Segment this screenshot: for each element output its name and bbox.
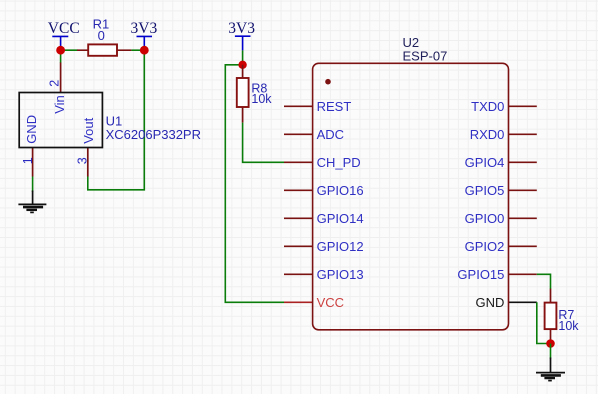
svg-text:XC6206P332PR: XC6206P332PR (106, 127, 201, 142)
pin 1 marker (325, 79, 331, 85)
ground symbol left (18, 191, 46, 213)
resistor R8 (237, 65, 273, 123)
svg-text:GPIO15: GPIO15 (457, 267, 504, 282)
svg-text:GPIO2: GPIO2 (465, 239, 505, 254)
net flag 3V3 right (228, 20, 255, 50)
pin GPIO13 (284, 273, 313, 275)
pin RXD0 (509, 133, 537, 135)
svg-text:Vin: Vin (52, 95, 67, 114)
svg-text:ADC: ADC (317, 127, 344, 142)
pin 2 Vin (60, 63, 62, 93)
junction dot 3V3 right (238, 61, 246, 69)
wire GND pin to junction (537, 302, 551, 343)
junction dot 3V3 (140, 46, 149, 55)
svg-text:GPIO13: GPIO13 (317, 267, 364, 282)
svg-text:GPIO0: GPIO0 (465, 211, 505, 226)
pin 3 Vout (87, 148, 89, 177)
svg-text:2: 2 (48, 80, 62, 87)
svg-text:ESP-07: ESP-07 (403, 48, 448, 63)
wire R1 to 3V3 (131, 49, 144, 51)
pin TXD0 (509, 105, 537, 107)
resistor R1 (77, 16, 131, 55)
svg-text:REST: REST (317, 99, 352, 114)
IC U2 ESP-07 (284, 35, 537, 330)
svg-text:GPIO5: GPIO5 (465, 183, 505, 198)
wire 3V3 down to Vout (88, 50, 145, 190)
body U1 (19, 93, 102, 148)
svg-text:GPIO4: GPIO4 (465, 155, 505, 170)
net flag 3V3 (131, 20, 158, 50)
pin 1 GND (32, 148, 34, 177)
wire GPIO15 to R7 (537, 274, 551, 289)
wire R8 to CH_PD (243, 123, 284, 163)
pin GPIO0 (509, 217, 537, 219)
net flag VCC (48, 20, 80, 50)
svg-text:VCC: VCC (317, 295, 344, 310)
wire junction to ground (550, 344, 552, 359)
resistor R7 (545, 289, 580, 344)
pin GPIO5 (509, 189, 537, 191)
wire VCC junction down to pin 2 (60, 50, 62, 63)
svg-text:3V3: 3V3 (131, 20, 158, 37)
junction dot VCC (56, 46, 65, 55)
svg-text:3V3: 3V3 (228, 20, 255, 37)
regulator U1 XC6206P332PR (19, 63, 201, 177)
pin GPIO2 (509, 245, 537, 247)
pin CH_PD (284, 161, 313, 163)
svg-text:10k: 10k (251, 92, 272, 106)
pin ADC (284, 133, 313, 135)
svg-text:1: 1 (21, 157, 35, 164)
pin GND (509, 301, 537, 303)
ground symbol right (536, 358, 565, 381)
svg-text:GPIO14: GPIO14 (317, 211, 364, 226)
svg-text:3: 3 (76, 157, 90, 164)
pin GPIO12 (284, 245, 313, 247)
pin GPIO14 (284, 217, 313, 219)
body U2 (313, 63, 509, 330)
junction dot R7 GND (546, 339, 555, 348)
svg-text:GND: GND (476, 295, 505, 310)
pin REST (284, 105, 313, 107)
wire 3V3 to VCC pin of U2 (225, 65, 284, 302)
pin GPIO4 (509, 161, 537, 163)
svg-text:0: 0 (98, 28, 105, 43)
svg-text:TXD0: TXD0 (471, 99, 504, 114)
pin VCC (284, 301, 313, 303)
svg-text:RXD0: RXD0 (470, 127, 505, 142)
wire 3V3 stem to junction (242, 50, 244, 64)
svg-text:VCC: VCC (48, 20, 80, 37)
svg-text:10k: 10k (558, 319, 579, 333)
pin GPIO16 (284, 189, 313, 191)
svg-text:GPIO12: GPIO12 (317, 239, 364, 254)
svg-text:Vout: Vout (81, 117, 96, 143)
svg-text:GPIO16: GPIO16 (317, 183, 364, 198)
wire VCC to R1 (61, 49, 78, 51)
wire pin1 to ground (32, 177, 34, 193)
svg-text:CH_PD: CH_PD (317, 155, 361, 170)
svg-text:GND: GND (24, 115, 39, 144)
pin GPIO15 (509, 273, 537, 275)
